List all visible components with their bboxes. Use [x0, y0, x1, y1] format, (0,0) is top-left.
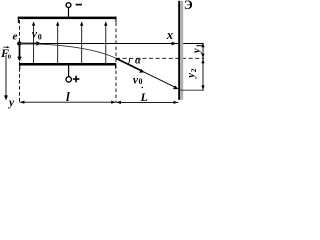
dashed vertical line at plate exit	[115, 23, 117, 103]
screen (black face line)	[178, 1, 180, 100]
svg-text:2: 2	[189, 68, 198, 72]
label y2 (rotated)	[185, 68, 198, 80]
bottom terminal circle	[66, 77, 71, 82]
svg-text:0: 0	[139, 77, 143, 86]
dimension l (plate length)	[20, 101, 116, 104]
svg-text:1: 1	[194, 44, 203, 48]
x axis	[19, 42, 203, 46]
svg-text:α: α	[135, 56, 141, 67]
label y1 (rotated)	[191, 44, 203, 55]
y axis	[4, 55, 8, 101]
force vector F0	[17, 46, 21, 62]
svg-text:x: x	[166, 28, 173, 42]
svg-text:y: y	[191, 48, 202, 55]
dashed horizontal line from exit point to beyond screen	[116, 57, 204, 59]
svg-text:e: e	[12, 31, 17, 43]
initial velocity vector v0	[20, 41, 42, 45]
top terminal stem	[68, 8, 70, 17]
top capacitor plate (negative)	[18, 17, 117, 23]
parabolic trajectory inside plates	[19, 44, 116, 59]
svg-text:l: l	[66, 89, 70, 104]
minus sign	[76, 4, 82, 6]
field arrow 1	[32, 21, 35, 63]
svg-text:0: 0	[38, 33, 42, 42]
dimension y1 (axis level to dashed line)	[201, 43, 204, 59]
field arrow 4	[104, 21, 107, 63]
svg-text:y: y	[7, 97, 15, 109]
exit velocity vector v0 (thick) along straight path	[116, 58, 145, 72]
bottom terminal stem	[68, 65, 70, 76]
field arrow 2	[56, 21, 59, 63]
dimension L (plates to screen)	[116, 101, 178, 104]
top terminal circle	[66, 3, 71, 8]
dimension y2 (dashed line to hit point)	[201, 59, 204, 91]
ink speck	[142, 87, 143, 88]
field arrow 3	[80, 21, 83, 63]
straight trajectory to screen with arrowhead at screen	[144, 72, 179, 89]
electron entry dot	[17, 41, 21, 45]
svg-text:Э: Э	[184, 0, 193, 12]
dashed vertical line at plate entrance	[19, 20, 21, 102]
svg-text:y: y	[185, 73, 197, 80]
tick at hit point level	[179, 89, 204, 91]
svg-text:0: 0	[8, 53, 11, 60]
label F0 with vector arrow	[0, 46, 11, 60]
svg-text:L: L	[140, 90, 148, 104]
angle arc alpha	[128, 58, 130, 65]
bottom capacitor plate (positive)	[19, 63, 116, 69]
plus sign	[73, 76, 80, 83]
screen body (gray)	[180, 1, 183, 100]
